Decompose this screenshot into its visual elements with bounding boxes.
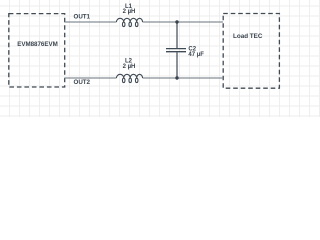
capacitor C2 (166, 22, 186, 78)
wire OUT1 right segment (143, 21, 224, 23)
inductor L2 (117, 74, 143, 82)
wire OUT1 left segment (65, 21, 117, 23)
svg-text:47 µF: 47 µF (188, 52, 204, 58)
junction node top (175, 20, 178, 23)
EVM8876EVM module box (9, 14, 65, 87)
svg-text:EVM8876EVM: EVM8876EVM (17, 41, 58, 48)
wire OUT2 right segment (143, 77, 224, 79)
svg-text:OUT2: OUT2 (74, 79, 91, 86)
svg-text:OUT1: OUT1 (74, 14, 91, 21)
svg-text:2 µH: 2 µH (123, 9, 136, 15)
svg-text:Load TEC: Load TEC (233, 33, 263, 40)
inductor L1 (117, 18, 143, 26)
svg-text:2 µH: 2 µH (123, 64, 136, 70)
Load TEC box (223, 14, 279, 89)
wire OUT2 left segment (65, 77, 117, 79)
junction node bottom (175, 76, 178, 79)
